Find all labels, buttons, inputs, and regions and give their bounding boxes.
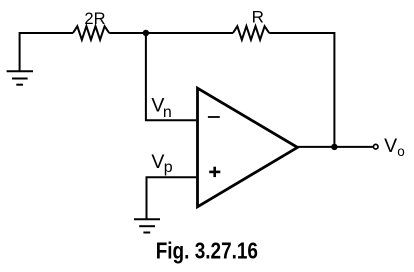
op-amp U1 non-inverting input marker (plus)	[209, 167, 220, 177]
svg-text:p: p	[164, 159, 173, 176]
resistor R	[233, 26, 269, 40]
svg-text:R: R	[252, 7, 264, 26]
svg-text:n: n	[163, 104, 172, 121]
wire resistor R right and down to output node B	[269, 33, 334, 147]
svg-text:Fig. 3.27.16: Fig. 3.27.16	[156, 239, 258, 264]
svg-text:o: o	[397, 144, 405, 159]
label Vo (output voltage)	[384, 135, 405, 159]
terminal Vo (open circle)	[373, 144, 378, 149]
resistor 2R	[73, 26, 109, 40]
ground GND1	[7, 71, 33, 85]
op-amp U1 triangle	[198, 88, 298, 207]
node A junction dot	[143, 30, 149, 36]
wire op-amp output to terminal Vo	[297, 146, 373, 148]
node B junction dot (output node)	[331, 144, 337, 150]
label Vn (inverting input net)	[151, 95, 171, 122]
wire op-amp non-inverting input left and down to ground GND2	[147, 177, 197, 219]
wire node A down and right to op-amp inverting input	[146, 33, 196, 120]
ground GND2	[134, 219, 160, 232]
wire node A to resistor R	[146, 32, 233, 34]
svg-text:2R: 2R	[84, 10, 105, 28]
wire resistor 2R to node A	[109, 32, 146, 34]
label Vp (non-inverting input net)	[151, 151, 172, 176]
op-amp U1 inverting input marker (minus)	[208, 116, 220, 118]
wire from ground GND1 up and right to resistor 2R	[20, 33, 73, 71]
svg-text:V: V	[384, 135, 397, 157]
svg-text:V: V	[151, 151, 164, 173]
